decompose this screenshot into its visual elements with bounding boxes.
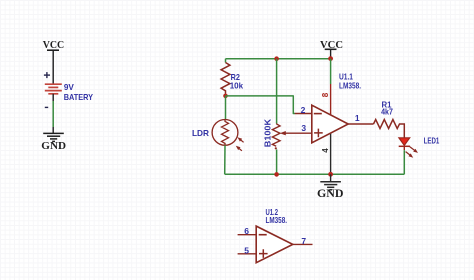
wire LED to bottom rail xyxy=(403,150,405,174)
pot wiper arrow xyxy=(285,132,312,134)
svg-text:BATERY: BATERY xyxy=(64,92,94,102)
GND symbol (main) xyxy=(317,174,344,200)
wire battery - to GND xyxy=(52,94,54,101)
svg-text:7: 7 xyxy=(301,236,306,246)
node top rail / pot feed xyxy=(274,56,279,61)
svg-text:GND: GND xyxy=(41,140,66,152)
wire bottom rail xyxy=(225,173,405,175)
svg-text:6: 6 xyxy=(244,226,249,236)
battery 9V BATERY xyxy=(45,84,62,94)
wire VCC down to pin 8 xyxy=(330,59,332,84)
svg-text:GND: GND xyxy=(317,188,344,200)
svg-text:4: 4 xyxy=(321,148,330,153)
svg-text:10k: 10k xyxy=(230,80,244,90)
op-amp U1.1 pin 1 xyxy=(348,123,373,125)
op-amp U1.1 body xyxy=(312,105,348,143)
node R2/LDR junction xyxy=(223,94,228,99)
wire pot to bottom rail xyxy=(276,150,278,175)
battery BT plus sign xyxy=(44,72,50,78)
svg-text:8: 8 xyxy=(321,92,330,97)
potentiometer B100K xyxy=(262,118,312,149)
wire LDR to bottom rail xyxy=(224,145,226,174)
op-amp U1.2 body xyxy=(256,226,293,263)
wire R2 top corner xyxy=(225,59,227,63)
LED1 xyxy=(399,135,440,157)
op-amp U1.1 pin 2 xyxy=(295,113,312,115)
wire down to potentiometer xyxy=(276,59,278,124)
svg-text:3: 3 xyxy=(301,123,306,133)
battery minus sign xyxy=(45,106,48,108)
svg-text:U1.1: U1.1 xyxy=(339,72,353,81)
op-amp U1.2 pin 5 xyxy=(238,253,257,255)
svg-text:4k7: 4k7 xyxy=(381,108,393,117)
op-amp U1.2 pin 6 xyxy=(238,234,257,236)
svg-text:9V: 9V xyxy=(64,82,74,92)
resistor R2 xyxy=(221,63,243,96)
wire top rail xyxy=(226,58,331,60)
svg-text:2: 2 xyxy=(301,105,306,115)
node pot / bottom rail xyxy=(274,172,279,177)
svg-text:5: 5 xyxy=(244,245,249,255)
wire junction to pin2 corner xyxy=(226,96,296,114)
svg-text:LED1: LED1 xyxy=(424,135,440,145)
node VCC / top rail xyxy=(328,56,333,61)
svg-text:LM358.: LM358. xyxy=(266,216,288,225)
op-amp U1.1 pin 4 xyxy=(330,133,332,174)
LDR photoresistor xyxy=(192,119,244,150)
VCC net label (main) xyxy=(320,39,343,59)
svg-text:1: 1 xyxy=(355,113,360,123)
svg-text:LM358.: LM358. xyxy=(339,81,361,90)
VCC net label (battery) xyxy=(43,39,65,51)
wire junction down to LDR xyxy=(225,96,227,120)
op-amp U1.1 pin 8 xyxy=(330,84,332,115)
svg-text:LDR: LDR xyxy=(192,128,209,138)
wire VCC to battery + xyxy=(52,50,54,84)
resistor R1 xyxy=(374,101,405,139)
LDR light arrows xyxy=(240,140,243,143)
node GND / bottom rail xyxy=(328,172,333,177)
op-amp U1.2 pin 7 xyxy=(293,243,313,245)
LED light arrows xyxy=(410,147,415,151)
GND symbol (battery) xyxy=(43,133,64,141)
svg-text:B100K: B100K xyxy=(262,118,272,147)
